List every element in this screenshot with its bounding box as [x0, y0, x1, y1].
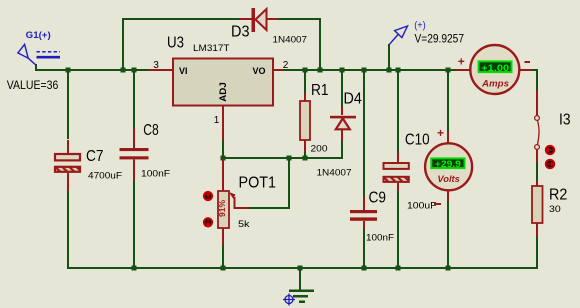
svg-text:POT1: POT1: [239, 175, 277, 192]
svg-text:100uF: 100uF: [407, 201, 437, 212]
svg-text:3: 3: [153, 60, 159, 71]
svg-text:D3: D3: [231, 24, 250, 41]
svg-text:Volts: Volts: [437, 174, 460, 185]
svg-text:VI: VI: [179, 66, 188, 76]
svg-text:LM317T: LM317T: [193, 43, 230, 54]
svg-text:91%: 91%: [217, 200, 227, 217]
svg-text:30: 30: [549, 204, 561, 215]
svg-text:5k: 5k: [238, 219, 250, 230]
svg-text:C9: C9: [369, 189, 387, 206]
svg-text:+29.9: +29.9: [435, 159, 461, 170]
svg-text:ADJ: ADJ: [218, 82, 228, 102]
svg-text:U3: U3: [167, 35, 184, 52]
svg-text:V=29.9257: V=29.9257: [415, 33, 465, 45]
svg-text:1N4007: 1N4007: [317, 168, 352, 179]
svg-text:C8: C8: [143, 122, 159, 139]
svg-text:200: 200: [311, 144, 328, 155]
svg-text:VO: VO: [253, 66, 266, 76]
svg-text:G1(+): G1(+): [26, 30, 51, 41]
svg-text:(+): (+): [414, 21, 426, 32]
svg-text:I3: I3: [559, 112, 571, 129]
svg-text:100nF: 100nF: [141, 169, 170, 180]
svg-text:1: 1: [214, 115, 220, 126]
svg-text:100nF: 100nF: [366, 233, 394, 244]
svg-text:D4: D4: [344, 91, 362, 108]
svg-text:R2: R2: [549, 186, 567, 203]
svg-text:+1.00: +1.00: [481, 63, 509, 74]
svg-text:+: +: [458, 55, 465, 69]
svg-text:Amps: Amps: [481, 78, 509, 89]
svg-text:VALUE=36: VALUE=36: [7, 80, 59, 92]
svg-text:4700uF: 4700uF: [88, 171, 122, 182]
svg-text:2: 2: [283, 60, 289, 71]
svg-text:+: +: [437, 126, 444, 140]
svg-text:R1: R1: [311, 82, 329, 99]
svg-text:C10: C10: [405, 132, 430, 149]
svg-text:C7: C7: [86, 148, 104, 165]
svg-text:1N4007: 1N4007: [273, 35, 308, 46]
